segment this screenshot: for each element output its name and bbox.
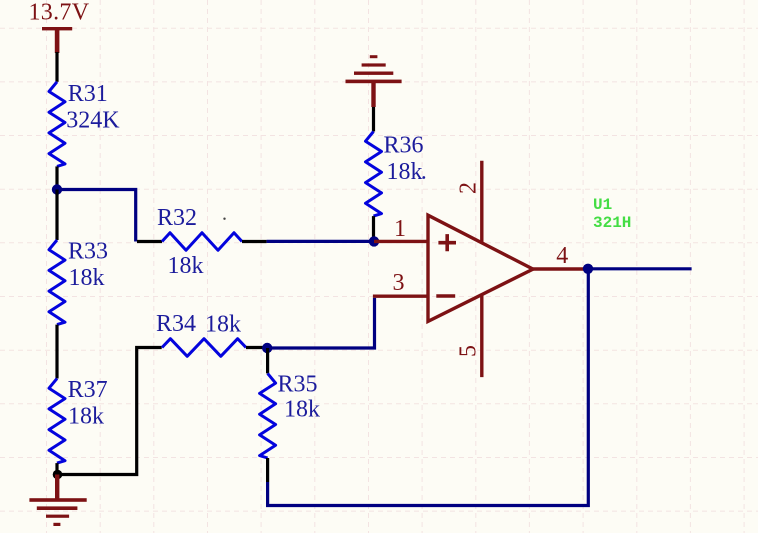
- op-amp pin 5 wire: [480, 295, 483, 378]
- power rail 13.7V: [29, 0, 90, 53]
- resistor R36: [366, 132, 426, 217]
- op-amp U1: [428, 161, 631, 377]
- wire: [55, 463, 58, 474]
- svg-text:R33: R33: [68, 239, 108, 265]
- wire: [55, 52, 58, 82]
- wire: [588, 267, 692, 270]
- svg-text:13.7V: 13.7V: [29, 0, 90, 26]
- wire: [372, 216, 375, 241]
- resistor R34: [156, 311, 246, 356]
- op-amp pin 4 output wire: [533, 267, 588, 270]
- resistor R31: [49, 81, 120, 166]
- svg-text:1: 1: [394, 216, 406, 242]
- wire: [137, 240, 162, 243]
- node junction R31/R33/R32: [52, 184, 62, 194]
- wire: [57, 348, 162, 475]
- wire: [372, 107, 375, 132]
- wire: [55, 325, 58, 379]
- wire: [266, 458, 269, 482]
- svg-text:18k: 18k: [205, 312, 241, 338]
- wire: [55, 166, 58, 189]
- wire: [246, 346, 263, 349]
- svg-text:18k: 18k: [387, 159, 423, 185]
- op-amp pin 2 wire: [480, 161, 483, 243]
- node junction R37/ground/R34: [53, 470, 63, 480]
- svg-text:18k: 18k: [284, 396, 320, 422]
- minus input mark: [436, 294, 455, 298]
- wire: [242, 240, 267, 243]
- svg-text:R32: R32: [157, 205, 197, 231]
- node junction output: [583, 264, 593, 274]
- wire: [57, 190, 136, 242]
- wire: [266, 348, 269, 373]
- svg-text:R36: R36: [384, 132, 424, 158]
- node junction R34/R35: [262, 343, 272, 353]
- ground (top, above R36): [346, 55, 402, 107]
- wire: [267, 240, 370, 243]
- svg-text:5: 5: [456, 345, 482, 357]
- wire: [268, 269, 589, 506]
- resistor R35: [260, 372, 320, 459]
- svg-text:U1: U1: [593, 196, 612, 214]
- resistor R32: [157, 205, 242, 279]
- svg-text:18k: 18k: [68, 404, 104, 430]
- svg-text:R34: R34: [156, 311, 196, 337]
- svg-text:2: 2: [456, 182, 482, 194]
- wire: [272, 298, 375, 348]
- resistor R37: [49, 377, 108, 463]
- svg-text:R31: R31: [68, 81, 108, 107]
- svg-text:3: 3: [393, 270, 405, 296]
- svg-text:4: 4: [556, 243, 568, 269]
- plus input mark: [438, 234, 456, 251]
- ground: [29, 475, 86, 527]
- svg-text:18k: 18k: [69, 265, 105, 291]
- op-amp pin 1 wire: [374, 240, 428, 243]
- wire: [55, 190, 58, 241]
- svg-text:321H: 321H: [593, 214, 631, 232]
- svg-text:18k: 18k: [168, 253, 204, 279]
- resistor R33: [49, 239, 108, 325]
- node junction pin1: [369, 236, 379, 246]
- svg-text:324K: 324K: [66, 107, 120, 133]
- svg-text:R37: R37: [68, 377, 108, 403]
- svg-text:R35: R35: [278, 372, 318, 398]
- op-amp pin 3 wire: [373, 295, 428, 298]
